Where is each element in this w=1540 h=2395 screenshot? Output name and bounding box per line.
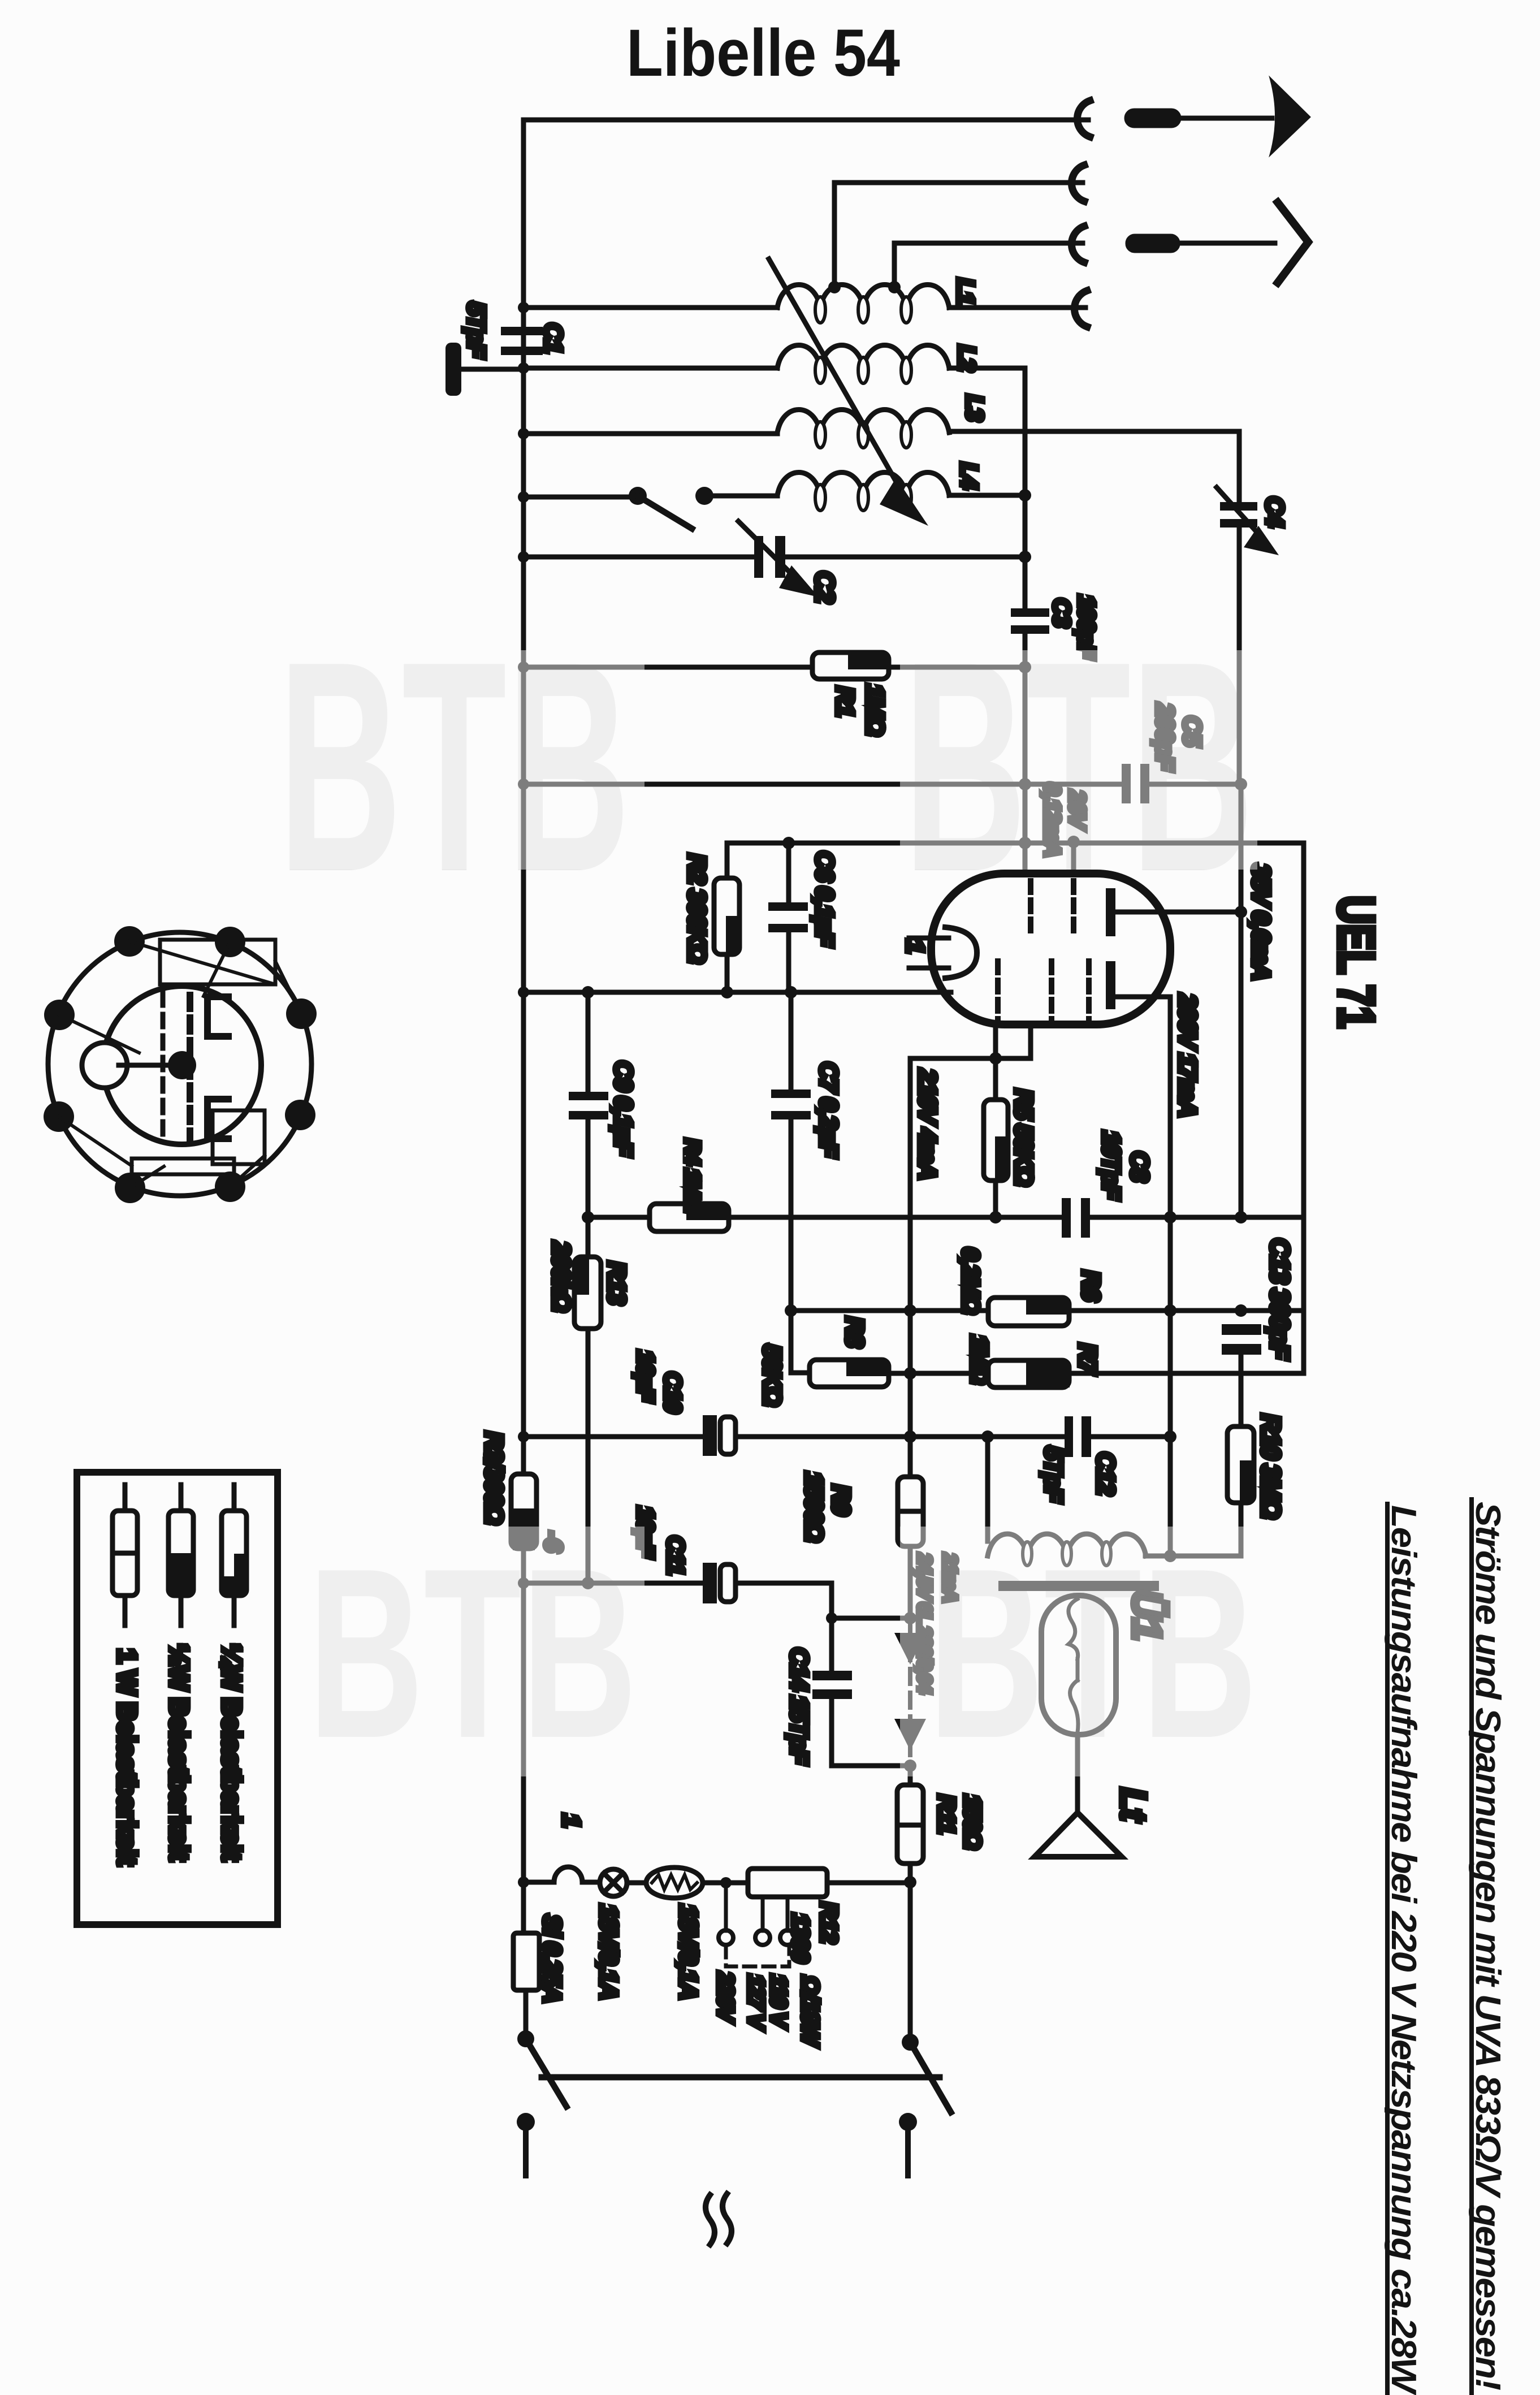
- svg-text:Ω/18W: Ω/18W: [797, 1975, 824, 2047]
- wire R8 to R7: [889, 1371, 988, 1376]
- wire 1872 horizontal: [910, 1056, 1031, 1061]
- capacitor C13 plate 2: [1222, 1344, 1261, 1355]
- svg-text:150Ω: 150Ω: [959, 1795, 986, 1849]
- capacitor C7 plate 2: [771, 1111, 811, 1119]
- legend resistor 1W lead top: [123, 1485, 128, 1511]
- node bus-AVC: [518, 779, 529, 790]
- socket pin 5: [215, 1171, 245, 1202]
- wire L3 to C4 rail: [949, 429, 1239, 434]
- wire 210V vertical: [908, 1058, 913, 1477]
- node bus-cathode: [518, 987, 529, 998]
- legend box: [77, 1472, 278, 1925]
- transformer U1 primary loops: [1023, 1542, 1111, 1566]
- wire triode grid lead down: [1028, 1024, 1033, 1058]
- svg-text:10TpF: 10TpF: [1097, 1131, 1125, 1200]
- svg-text:C11: C11: [663, 1536, 689, 1575]
- resistor R9 divider: [898, 1509, 923, 1514]
- capacitor C10 plate white: [720, 1417, 736, 1454]
- svg-text:1MΩ: 1MΩ: [966, 1335, 993, 1384]
- capacitor C8 plate 1: [1062, 1198, 1071, 1238]
- tube socket outer circle: [48, 932, 312, 1196]
- filament dome: [945, 927, 977, 978]
- wire right bus vertical: [1301, 843, 1307, 1373]
- svg-text:C3: C3: [1049, 598, 1075, 627]
- wire C3 to grid rail: [1023, 634, 1028, 874]
- legend resistor quarterW body: [222, 1511, 246, 1596]
- legend resistor halfW lead top: [179, 1485, 184, 1511]
- capacitor C2 plate 1: [754, 536, 763, 578]
- resistor R7 body: [988, 1360, 1069, 1387]
- svg-text:5TpF: 5TpF: [1040, 1446, 1067, 1503]
- wire main ground bus (vertical left): [521, 120, 526, 1474]
- jack socket 1: [1077, 101, 1090, 137]
- switch pole left: [517, 2030, 534, 2047]
- resistor R8 fill: [846, 1361, 889, 1376]
- socket trace diag 7: [204, 942, 230, 996]
- svg-text:Lt: Lt: [1113, 1788, 1154, 1822]
- dial lamp arrow 2: [894, 1719, 926, 1750]
- anode 1 lead: [1115, 910, 1241, 915]
- variable tuning arrowhead: [880, 478, 928, 526]
- capacitor C8 plate 2: [1081, 1198, 1090, 1238]
- fuse Si body: [513, 1933, 539, 1990]
- grid 1 dashes: [1028, 881, 1033, 936]
- switch contact a: [629, 487, 647, 505]
- anode 2 lead: [1115, 995, 1170, 1000]
- wire plug 1 to arrow: [1179, 116, 1272, 121]
- node bus-L4: [518, 491, 529, 503]
- node screen-grid2: [1067, 836, 1080, 848]
- node anode2-transformer: [1164, 1550, 1176, 1562]
- wire C6 bottom lead: [786, 932, 791, 992]
- svg-text:R8: R8: [841, 1317, 868, 1348]
- wire fuse to switch: [524, 1990, 529, 2033]
- node R13-2800: [582, 1577, 594, 1589]
- wire lamp to scale lamp: [627, 1880, 646, 1886]
- socket pin 8: [44, 1000, 75, 1030]
- svg-text:1MΩ: 1MΩ: [861, 684, 889, 736]
- socket pin 2: [215, 927, 245, 957]
- legend resistor quarterW lead top: [232, 1485, 237, 1511]
- svg-text:R7: R7: [1074, 1343, 1101, 1376]
- capacitor C9 plate 1: [569, 1092, 608, 1100]
- node bus-L3: [518, 428, 529, 439]
- resistor R2 fill: [726, 916, 738, 953]
- pilot lamp circle-X: [600, 1869, 627, 1896]
- node bus-heater: [518, 1877, 529, 1888]
- wire R4 to C8: [729, 1215, 1062, 1220]
- resistor R13 fill: [576, 1259, 589, 1295]
- resistor R5 body: [984, 1100, 1008, 1181]
- coil L2: [777, 345, 949, 369]
- note line 1 underline: [1469, 1499, 1474, 2393]
- node 210Vrail-R7: [904, 1367, 916, 1380]
- coil L4: [777, 473, 949, 496]
- node R9 bottom: [904, 1612, 916, 1624]
- voltage selector dashed link: [726, 1946, 789, 1966]
- wire speaker lead: [1075, 1735, 1080, 1813]
- socket center line: [119, 1063, 170, 1068]
- svg-text:R3/300Ω: R3/300Ω: [480, 1432, 508, 1524]
- wire C14 top lead: [829, 1618, 834, 1671]
- resistor R7 fill: [1026, 1362, 1070, 1387]
- speaker voice coil bottom: [1070, 1680, 1078, 1732]
- wire tap 110 lead: [786, 1897, 790, 1931]
- node cathode-1872: [989, 1052, 1002, 1065]
- wire bus to C2: [524, 555, 754, 560]
- tube UEL71 envelope: [931, 874, 1170, 1024]
- svg-text:1 W Belastbarkeit: 1 W Belastbarkeit: [113, 1649, 142, 1865]
- svg-text:R6: R6: [1077, 1270, 1105, 1302]
- svg-text:16μF: 16μF: [633, 1350, 659, 1403]
- wire cathode line bus to tube: [524, 990, 951, 995]
- dial lamp arrow 1: [894, 1633, 926, 1665]
- capacitor C6 plate 1: [768, 902, 808, 911]
- svg-text:Ströme und Spannungen mit UVA: Ströme und Spannungen mit UVA 833Ω/V gem…: [1468, 1502, 1507, 2390]
- switch lever right: [910, 2042, 951, 2112]
- wire tap 127 lead: [761, 1897, 765, 1931]
- wire plug 2 to arrow: [1178, 241, 1275, 246]
- wire L4 to rail: [949, 493, 1025, 498]
- socket trace diag 3: [59, 1117, 132, 1166]
- wire R7 right to bus corner: [1069, 1371, 1304, 1376]
- svg-text:R1: R1: [831, 686, 859, 716]
- node screen-C6: [782, 837, 795, 849]
- capacitor C1 plate 2: [501, 347, 543, 355]
- wire transformer primary left lead: [985, 1437, 990, 1541]
- socket trace rect top: [160, 940, 275, 984]
- svg-text:Libelle 54: Libelle 54: [626, 16, 900, 90]
- transformer U1 core bar: [998, 1581, 1159, 1591]
- wire C14 bottom lead: [832, 1699, 910, 1766]
- node R11-R12: [904, 1876, 916, 1888]
- node R1-rail: [1019, 661, 1031, 673]
- socket pin 6: [115, 1173, 145, 1203]
- legend resistor halfW lead bottom: [179, 1596, 184, 1626]
- wire AVC line bus to C5: [524, 782, 1122, 787]
- capacitor C14 plate 2: [812, 1689, 852, 1699]
- PART-WATERMARK-LETTERS: [278, 599, 1257, 1788]
- wire R2 top lead: [725, 843, 730, 878]
- capacitor C13 plate 1: [1222, 1324, 1261, 1335]
- wire C11 right with corner: [736, 1583, 910, 1618]
- svg-text:L3: L3: [962, 395, 988, 421]
- svg-text:L2: L2: [954, 345, 980, 371]
- svg-text:R13: R13: [603, 1261, 630, 1304]
- svg-text:100pF: 100pF: [1074, 595, 1100, 660]
- coil L4 loop ovals: [815, 485, 911, 511]
- wire C8 to right bus: [1090, 1215, 1304, 1220]
- wire bus to coil L1: [524, 305, 777, 310]
- wire R5 bottom lead: [993, 1181, 998, 1217]
- socket pin 7: [44, 1101, 74, 1132]
- variable tuning arrow through coils: [769, 259, 905, 496]
- capacitor C4 plate 2: [1220, 519, 1257, 528]
- tap terminal 127: [755, 1930, 770, 1945]
- wire vertical L2/C3 rail: [1023, 368, 1028, 608]
- svg-text:R5 50KΩ: R5 50KΩ: [1010, 1089, 1037, 1186]
- node L1 tap b: [888, 281, 901, 293]
- wire bus to coil L3: [524, 431, 777, 436]
- wire screen line R2 to right bus: [727, 841, 1304, 846]
- legend resistor halfW body: [168, 1511, 193, 1596]
- capacitor C10 plate black: [703, 1415, 717, 1456]
- wire C5 to anode rail: [1149, 782, 1241, 787]
- coil L2 loop ovals: [815, 357, 911, 383]
- resistor R4 body: [650, 1204, 729, 1231]
- trimmer C4 arrow: [1217, 487, 1268, 544]
- wire C9 rail lower: [586, 1119, 591, 1257]
- svg-text:C9 0,1μF: C9 0,1μF: [609, 1061, 637, 1157]
- capacitor C4 plate 1: [1220, 502, 1257, 511]
- svg-text:R10 3MΩ: R10 3MΩ: [1256, 1414, 1286, 1518]
- node L4-rail: [1019, 489, 1031, 502]
- node bus-2800: [518, 1577, 529, 1589]
- wire L1 to jack 4: [949, 305, 1085, 310]
- capacitor C11 plate black: [703, 1563, 717, 1603]
- wire ground to bus: [456, 367, 524, 372]
- dial lamp dashed line: [908, 1622, 912, 1766]
- wire switch to coil L4: [704, 494, 777, 499]
- wire R11 bottom lead: [908, 1864, 913, 2040]
- node 210Vrail-2541: [904, 1430, 916, 1443]
- anode 1 plate: [1106, 888, 1115, 936]
- svg-text:18V/0,1A: 18V/0,1A: [674, 1904, 702, 1999]
- wire vertical to L1 tap a: [832, 183, 837, 286]
- svg-text:¼W Belastbarkeit: ¼W Belastbarkeit: [217, 1644, 246, 1861]
- wire R4 left lead: [588, 1215, 650, 1220]
- wire anode rail vertical: [1239, 784, 1244, 1217]
- svg-text:C14 15TpF: C14 15TpF: [785, 1648, 813, 1765]
- note line 2 underline: [1385, 1504, 1390, 2394]
- coil L1: [777, 285, 949, 308]
- resistor R9 body: [898, 1477, 923, 1546]
- wire R2 bottom lead: [725, 954, 730, 992]
- speaker voice coil top: [1069, 1599, 1078, 1659]
- anode 2 plate: [1106, 961, 1115, 1009]
- jack socket 3: [1071, 226, 1084, 262]
- svg-text:L4: L4: [956, 462, 983, 489]
- wire triode cathode down: [993, 1024, 998, 1100]
- speaker coil link: [1076, 1659, 1080, 1680]
- svg-text:1: 1: [557, 1814, 585, 1827]
- node C5-anode rail: [1235, 778, 1247, 790]
- node cathode-C7: [785, 986, 797, 998]
- svg-text:110 V: 110 V: [766, 1974, 791, 2029]
- legend resistor 1W divider: [113, 1551, 137, 1556]
- svg-text:½W Belastbarkeit: ½W Belastbarkeit: [165, 1644, 194, 1861]
- capacitor C14 plate 1: [812, 1671, 852, 1680]
- tube socket inner circle: [103, 986, 261, 1144]
- resistor R1 fill: [848, 654, 886, 669]
- node C14 corner: [826, 1612, 837, 1624]
- switch contact b: [695, 487, 713, 505]
- node anode2rail-2153: [1164, 1211, 1176, 1224]
- node bus-2541: [518, 1431, 529, 1442]
- legend resistor 1W body: [113, 1511, 137, 1596]
- capacitor C1 plate 1: [501, 327, 543, 335]
- coil L3: [777, 410, 949, 433]
- wire mains link: [542, 2074, 940, 2081]
- socket trace diag 5: [230, 1156, 265, 1187]
- node C14-R11: [904, 1759, 916, 1772]
- svg-text:200kΩ: 200kΩ: [547, 1241, 575, 1312]
- triode grid dashes a: [995, 961, 1001, 1021]
- heater jumper bump: [554, 1867, 582, 1882]
- wire R6 line left: [791, 1308, 988, 1313]
- mains pin right ball: [899, 2113, 917, 2131]
- antenna arrow (filled): [1271, 79, 1309, 154]
- node cathode-C9: [582, 986, 594, 998]
- wire C4 rail lower: [1237, 528, 1242, 783]
- earth antenna arrow (open chevron): [1278, 202, 1308, 283]
- resistor R3 body: [511, 1474, 537, 1549]
- svg-text:C10: C10: [660, 1372, 686, 1413]
- capacitor C7 plate 1: [771, 1090, 811, 1098]
- capacitor C3 plate 2: [1011, 625, 1049, 634]
- wire R12 right: [827, 1880, 910, 1886]
- switch pole right: [902, 2034, 919, 2051]
- socket plate upper: [207, 997, 228, 1036]
- wire antenna lead 2: [834, 180, 1083, 185]
- socket trace diag 6: [275, 961, 301, 1014]
- capacitor C3 plate 1: [1011, 608, 1049, 617]
- coil L3 loop ovals: [815, 422, 911, 448]
- capacitor C2 plate 2: [775, 536, 785, 578]
- svg-text:R11: R11: [933, 1795, 960, 1834]
- node C2-rail: [1019, 551, 1031, 563]
- wire C7 rail lower: [789, 1119, 794, 1373]
- wire bus lower segment below R3: [521, 1549, 526, 1933]
- wire antenna lead 3: [894, 241, 1083, 246]
- svg-text:C8: C8: [1126, 1151, 1153, 1182]
- resistor R11 divider: [897, 1823, 923, 1828]
- resistor R10 fill: [1240, 1460, 1253, 1502]
- node anode2rail-C12: [1164, 1430, 1176, 1443]
- resistor R1 body: [812, 652, 889, 679]
- mains pin left ball: [517, 2113, 535, 2131]
- socket trace rect right: [213, 1110, 265, 1164]
- wire C9 rail upper: [586, 992, 591, 1092]
- wire feedback line 2541: [524, 1434, 703, 1439]
- svg-text:C7 0,2μF: C7 0,2μF: [815, 1062, 842, 1158]
- switch lever: [638, 496, 692, 529]
- capacitor C12 plate 1: [1065, 1416, 1073, 1457]
- svg-text:C1: C1: [539, 323, 567, 353]
- tap terminal 110: [780, 1930, 795, 1945]
- trimmer C4 arrowhead: [1244, 526, 1279, 555]
- node C13 top: [1235, 1304, 1247, 1317]
- jack socket 4: [1074, 291, 1087, 327]
- svg-text:R9: R9: [827, 1485, 855, 1516]
- socket pin 3: [286, 998, 317, 1029]
- wire vertical to L1 tap b: [892, 243, 897, 286]
- speaker cone triangle: [1035, 1813, 1122, 1857]
- node anode1-rail: [1235, 906, 1247, 918]
- wire tap 220 lead: [724, 1883, 728, 1931]
- capacitor C6 plate 2: [768, 924, 808, 932]
- mains AC symbol: [706, 2194, 732, 2245]
- svg-text:200V 17mA: 200V 17mA: [1174, 993, 1201, 1117]
- wire C2 to rail: [785, 555, 1025, 560]
- node L1 tap a: [828, 281, 841, 293]
- tap terminal 220: [719, 1930, 733, 1945]
- resistor R6 fill: [1026, 1299, 1070, 1315]
- wire R11 top lead: [908, 1766, 913, 1785]
- dial scale lamp: [646, 1867, 703, 1898]
- wire R13 bottom lead: [586, 1329, 591, 1583]
- legend resistor 1W lead bottom: [123, 1596, 128, 1626]
- resistor R13 body: [574, 1257, 601, 1329]
- switch lever left: [526, 2039, 566, 2107]
- svg-text:1: 1: [901, 940, 929, 953]
- node C9-R4: [582, 1211, 594, 1224]
- wire R8 left lead: [791, 1371, 810, 1376]
- socket trace rect bottom: [132, 1158, 234, 1174]
- resistor R12 body: [748, 1869, 827, 1897]
- socket center spigot: [168, 1051, 196, 1079]
- resistor R2 body: [714, 878, 739, 954]
- resistor R6 body: [988, 1298, 1069, 1326]
- filament lead 2: [909, 966, 949, 971]
- svg-text:C2: C2: [810, 571, 840, 603]
- resistor R5 fill: [995, 1136, 1006, 1179]
- svg-text:R4 1MΩ: R4 1MΩ: [680, 1139, 704, 1213]
- svg-text:18V/0,1A: 18V/0,1A: [595, 1904, 622, 1999]
- wire C7 rail upper: [789, 992, 794, 1090]
- svg-text:Si 0,25A: Si 0,25A: [538, 1914, 566, 2002]
- node bus-R1: [518, 662, 529, 673]
- node anode2rail-R6: [1164, 1304, 1176, 1317]
- capacitor C9 plate 2: [569, 1111, 608, 1119]
- wire scale lamp to R12: [703, 1880, 748, 1886]
- svg-text:50KΩ: 50KΩ: [758, 1345, 786, 1406]
- node anoderail-2153: [1235, 1211, 1247, 1224]
- jack socket 2: [1071, 165, 1084, 201]
- node bus-L1: [518, 302, 529, 313]
- socket grid dashes b: [187, 995, 193, 1142]
- mains pin right stem: [905, 2122, 911, 2176]
- wire C10 to C12: [736, 1434, 1065, 1439]
- wire C6 top lead: [786, 843, 791, 902]
- resistor R3 fill: [513, 1508, 535, 1550]
- wire C12 right: [1091, 1434, 1170, 1439]
- filament lead 1: [909, 936, 949, 941]
- svg-text:C6 0,1μF: C6 0,1μF: [811, 851, 838, 947]
- wire C13 to R10: [1239, 1355, 1244, 1426]
- triode grid dashes c: [1086, 961, 1092, 1021]
- socket plate lower: [207, 1099, 228, 1139]
- plug pin 1: [1127, 111, 1179, 126]
- PART-OVERLAYS: [276, 650, 1263, 1776]
- svg-text:Leistungsaufnahme bei 220 V Ne: Leistungsaufnahme bei 220 V Netzspannung…: [1384, 1505, 1423, 2395]
- wire bump to lamp: [582, 1880, 600, 1885]
- speaker capsule: [1041, 1596, 1116, 1735]
- socket grid dashes a: [161, 993, 166, 1139]
- node AVC-gridrail: [1019, 778, 1031, 790]
- wire C4 rail upper: [1237, 431, 1242, 502]
- transformer U1 primary coil: [988, 1534, 1146, 1556]
- svg-text:1500Ω: 1500Ω: [800, 1472, 828, 1542]
- wire bus to coil L2: [524, 366, 777, 371]
- socket pin 1: [114, 926, 145, 957]
- svg-text:5TpF: 5TpF: [462, 302, 490, 358]
- capacitor C11 plate white: [720, 1564, 736, 1602]
- svg-text:35V 0,6mA: 35V 0,6mA: [1247, 864, 1275, 980]
- plug pin 2: [1128, 236, 1178, 250]
- legend resistor halfW fill: [170, 1553, 192, 1594]
- ground bar at C1: [445, 343, 461, 396]
